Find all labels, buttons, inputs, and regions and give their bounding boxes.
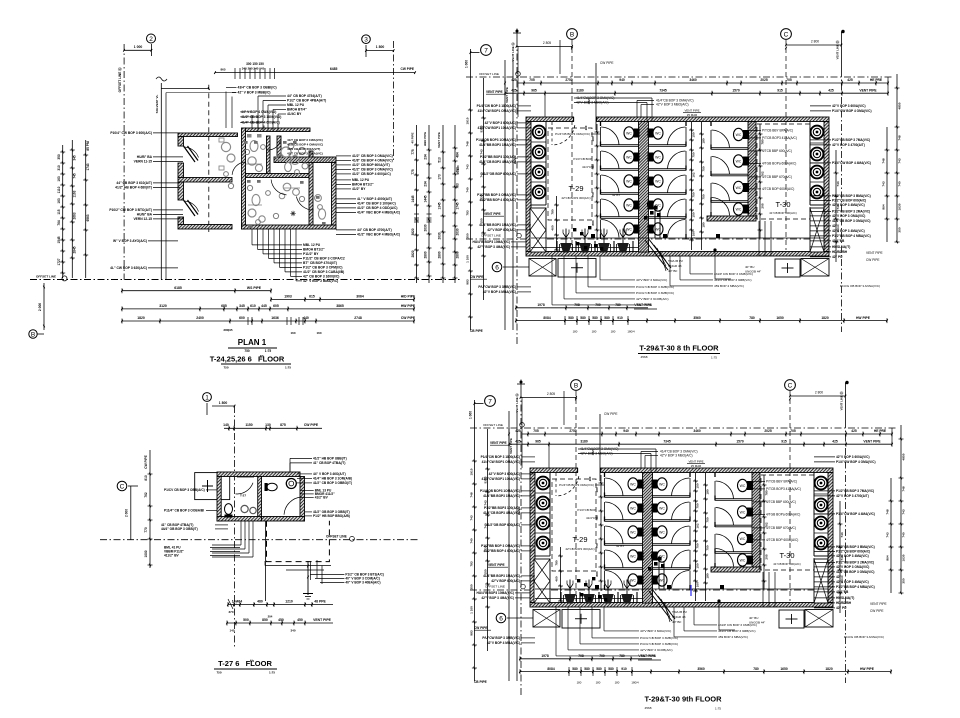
svg-text:C: C	[788, 382, 793, 389]
svg-text:HD/B2/BH: HD/B2/BH	[836, 601, 852, 605]
svg-text:41/2" CB BOP 3 CABA(I/B): 41/2" CB BOP 3 CABA(I/B)	[303, 270, 344, 274]
corner box left plus	[562, 610, 600, 629]
svg-text:173: 173	[438, 174, 442, 180]
svg-text:810: 810	[144, 475, 148, 481]
svg-text:3820: 3820	[411, 228, 415, 235]
svg-text:2800: 2800	[424, 251, 428, 258]
svg-text:180: 180	[706, 489, 710, 494]
svg-text:41"CB BOP 600(A/C): 41"CB BOP 600(A/C)	[769, 211, 797, 215]
svg-text:42"V BOP 600(A/C): 42"V BOP 600(A/C)	[491, 579, 520, 583]
extra fixture clutter	[244, 149, 249, 154]
svg-text:480: 480	[257, 600, 263, 604]
svg-text:6: 6	[499, 615, 503, 622]
stall front stubs bank C	[714, 496, 716, 501]
corner box left plus	[558, 259, 596, 278]
wc left room	[225, 504, 233, 515]
offset line A vertical	[123, 44, 125, 280]
svg-text:204: 204	[268, 615, 273, 619]
wash basin 1 right	[815, 477, 828, 490]
svg-text:770: 770	[144, 527, 148, 533]
corridor dim line 2	[705, 473, 707, 601]
urinal flush valves	[565, 229, 567, 244]
svg-text:42"CB BOP2 300(A/C): 42"CB BOP2 300(A/C)	[565, 547, 594, 551]
svg-text:350: 350	[57, 154, 61, 160]
urinal back line	[531, 247, 638, 249]
svg-text:3560: 3560	[697, 667, 705, 671]
basin lower-middle	[248, 209, 256, 217]
svg-text:163: 163	[57, 198, 61, 204]
svg-text:615: 615	[309, 295, 315, 299]
svg-text:910: 910	[621, 667, 627, 671]
svg-text:705: 705	[790, 429, 796, 433]
svg-text:WC: WC	[740, 484, 746, 488]
basin counter lines left	[535, 492, 550, 494]
svg-text:WC: WC	[655, 131, 661, 135]
stall doors bank A right	[668, 127, 686, 145]
svg-text:HW PIPE: HW PIPE	[856, 316, 871, 320]
svg-text:41" CB BOP 4TBA(/T): 41" CB BOP 4TBA(/T)	[313, 461, 345, 465]
svg-text:750: 750	[244, 349, 250, 353]
outer wall top right	[597, 117, 829, 122]
cw pipe riser top	[599, 414, 601, 481]
svg-text:WC: WC	[630, 482, 636, 486]
room T-30 dashed boundary	[761, 475, 814, 570]
svg-text:42"V BFP 3 3COB(A/C): 42"V BFP 3 3COB(A/C)	[636, 297, 669, 301]
svg-text:2 805: 2 805	[543, 41, 551, 45]
svg-text:T-27 6 FLOOR: T-27 6 FLOOR	[218, 659, 272, 668]
basin right room	[286, 479, 296, 489]
svg-text:7345: 7345	[659, 88, 667, 92]
svg-text:WC: WC	[655, 155, 661, 159]
corridor dim line 2	[701, 122, 703, 250]
svg-text:th: th	[260, 354, 264, 359]
svg-text:783: 783	[470, 561, 474, 566]
floor drain left	[595, 585, 599, 589]
svg-text:P10/4" CW BOP 3 600(A/C): P10/4" CW BOP 3 600(A/C)	[110, 131, 152, 135]
svg-text:1570: 1570	[732, 88, 740, 92]
svg-text:P1/4"CB BOP3 OMA(V/C): P1/4"CB BOP3 OMA(V/C)	[555, 132, 590, 136]
offset line A vertical	[520, 391, 522, 696]
bottom dim row 1b	[271, 298, 414, 300]
svg-text:HBR PIPE: HBR PIPE	[423, 132, 427, 146]
grid bubble B	[571, 380, 582, 391]
svg-text:700: 700	[595, 303, 601, 307]
room T-29 dashed boundary	[552, 479, 596, 571]
svg-text:WC: WC	[655, 179, 661, 183]
svg-text:205: 205	[761, 203, 765, 208]
svg-text:580: 580	[572, 667, 578, 671]
svg-text:983: 983	[466, 279, 470, 284]
svg-text:708: 708	[578, 654, 584, 658]
svg-text:370: 370	[228, 610, 233, 614]
svg-text:205: 205	[765, 554, 769, 559]
svg-text:6963: 6963	[86, 214, 90, 221]
grid C dim 2800	[790, 395, 845, 397]
svg-text:P1/2"BB BOP3 100(A/C): P1/2"BB BOP3 100(A/C)	[484, 506, 520, 510]
svg-text:HW PIPE: HW PIPE	[401, 304, 416, 308]
svg-text:WS PIPE: WS PIPE	[247, 286, 262, 290]
svg-text:25 MAR: 25 MAR	[691, 464, 701, 468]
corner box left xbrace	[533, 610, 560, 628]
door arc right room	[296, 197, 313, 211]
basin counter lines right	[814, 493, 828, 495]
svg-text:CW PIPE: CW PIPE	[604, 412, 617, 416]
svg-text:750: 750	[595, 543, 599, 548]
svg-text:WC: WC	[736, 133, 742, 137]
left vertical dim line 2	[71, 140, 73, 278]
corridor dim line 1	[691, 122, 693, 250]
wash basin 1 left	[537, 477, 550, 490]
wall middle T-27	[258, 477, 262, 522]
svg-text:459 BOP 4 MBA(V/C): 459 BOP 4 MBA(V/C)	[714, 284, 744, 288]
svg-text:3: 3	[364, 37, 368, 44]
svg-text:940: 940	[623, 429, 629, 433]
svg-text:2 800: 2 800	[811, 39, 819, 43]
svg-text:1 060: 1 060	[469, 411, 473, 419]
svg-text:2030: 2030	[438, 232, 442, 239]
grid bubble 7	[481, 45, 492, 56]
basin alcove inner wall right	[813, 473, 815, 557]
svg-text:910: 910	[617, 316, 623, 320]
svg-text:CW PIPE: CW PIPE	[401, 316, 416, 320]
pipe drop ticks	[307, 565, 309, 568]
bottom dim row 1	[516, 307, 648, 309]
right vertical dim 2	[890, 478, 892, 593]
basin alcove inner wall left	[545, 122, 547, 206]
stall front stubs bank A left	[604, 493, 606, 498]
svg-text:P1/4"CB BOP: P1/4"CB BOP	[573, 157, 592, 161]
wash basin 4 left	[533, 186, 546, 199]
grid 1 stem	[206, 403, 208, 415]
svg-text:8084: 8084	[547, 667, 555, 671]
svg-text:WC: WC	[736, 159, 742, 163]
svg-text:40" BU: 40" BU	[745, 265, 754, 269]
floor drain circles left room	[241, 505, 248, 512]
svg-text:P1/2"CB BOP 600(A/C): P1/2"CB BOP 600(A/C)	[832, 199, 866, 203]
svg-text:1 100: 1 100	[466, 255, 470, 263]
svg-text:484: 484	[456, 152, 460, 158]
svg-text:3560: 3560	[693, 316, 701, 320]
svg-text:4/TCB BBP 600(A/C): 4/TCB BBP 600(A/C)	[762, 149, 792, 153]
svg-text:WC: WC	[630, 530, 636, 534]
svg-text:1820: 1820	[825, 667, 833, 671]
svg-text:3064: 3064	[356, 295, 364, 299]
svg-text:705: 705	[529, 78, 535, 82]
wall right T-27	[300, 477, 305, 522]
svg-text:750: 750	[702, 194, 706, 199]
grid 7 leader	[474, 403, 483, 405]
svg-text:1445: 1445	[424, 195, 428, 202]
svg-text:OFFSET LINE: OFFSET LINE	[36, 275, 56, 279]
svg-text:762: 762	[144, 492, 148, 498]
svg-text:T-30: T-30	[775, 200, 790, 209]
wash basin 3 right	[815, 517, 828, 530]
room T-29 dashed boundary	[548, 128, 592, 220]
outer wall right	[824, 122, 829, 252]
svg-text:P11/2" CB BOP 3 COPA/C2: P11/2" CB BOP 3 COPA/C2	[303, 257, 345, 261]
svg-text:44" V BOP 3 46O(A/T): 44" V BOP 3 46O(A/T)	[313, 472, 346, 476]
svg-text:P1/2"CB BOP 600(A/C): P1/2"CB BOP 600(A/C)	[836, 550, 870, 554]
svg-text:4/TGB BOPa 600A(A/C): 4/TGB BOPa 600A(A/C)	[762, 162, 796, 166]
svg-text:P1/2"CB BOP 3 7MA(V/C): P1/2"CB BOP 3 7MA(V/C)	[836, 489, 874, 493]
svg-text:42"V BOP 3 4700(A/T): 42"V BOP 3 4700(A/T)	[836, 494, 869, 498]
svg-text:605: 605	[273, 304, 279, 308]
svg-text:41/2" CB BOP 4 600(A/C): 41/2" CB BOP 4 600(A/C)	[352, 172, 391, 176]
svg-text:6485: 6485	[330, 67, 338, 71]
wall left T-27	[217, 477, 221, 522]
offset line D	[100, 539, 420, 541]
svg-text:130: 130	[265, 423, 271, 427]
svg-text:425: 425	[511, 78, 517, 82]
dashed pipe drop	[208, 85, 210, 232]
svg-text:42"V BOP 3 600(A/C): 42"V BOP 3 600(A/C)	[489, 472, 520, 476]
svg-text:41/4"CB BOP3 4MA(V/C): 41/4"CB BOP3 4MA(V/C)	[479, 160, 516, 164]
svg-text:864: 864	[882, 204, 886, 209]
svg-text:500: 500	[243, 618, 249, 622]
svg-text:42"V BOP 3 MBO(A/C): 42"V BOP 3 MBO(A/C)	[656, 103, 689, 107]
shaft x-brace left	[530, 208, 546, 252]
wall left segment lower	[178, 217, 184, 225]
grid bubble 1	[203, 393, 212, 402]
svg-text:WC: WC	[736, 207, 742, 211]
wall left segment upper	[178, 163, 184, 178]
valve cluster at chase bottom	[647, 203, 651, 207]
right small cross ticks	[414, 213, 419, 215]
svg-text:425: 425	[832, 439, 838, 443]
pipe diagonal run	[645, 240, 668, 270]
svg-text:P/TCB BOP3 41AA(A/C): P/TCB BOP3 41AA(A/C)	[762, 136, 797, 140]
svg-text:42"V BOP 3 600(A/C): 42"V BOP 3 600(A/C)	[485, 121, 516, 125]
svg-text:4/TCB BOP 600A(A/C): 4/TCB BOP 600A(A/C)	[766, 538, 798, 542]
door arc upper-left	[184, 147, 199, 158]
door leaf lower-left	[184, 200, 196, 216]
svg-text:4/TCB BBP 600(A/C): 4/TCB BBP 600(A/C)	[766, 500, 796, 504]
svg-text:P1/4"CW BOP 4 OMA(V/C): P1/4"CW BOP 4 OMA(V/C)	[836, 460, 876, 464]
svg-text:4/TCB BBP 670(A/C): 4/TCB BBP 670(A/C)	[762, 175, 792, 179]
wall left mid bar	[178, 178, 232, 183]
svg-text:2800: 2800	[438, 251, 442, 258]
wc fixtures bank A left	[628, 478, 644, 490]
svg-text:4568: 4568	[641, 355, 648, 359]
svg-text:180: 180	[591, 136, 595, 141]
right vertical dim A	[416, 125, 418, 283]
left vertical dim line 3	[85, 140, 87, 278]
right vertical dim 3	[835, 150, 837, 262]
svg-text:2750: 2750	[569, 429, 577, 433]
wc right room	[318, 209, 325, 219]
wall top of middle room	[246, 128, 311, 132]
stall doors bank C	[716, 481, 734, 499]
shaft x-brace left	[534, 559, 550, 603]
grid bubble C	[117, 481, 127, 491]
top dim row 1	[522, 433, 892, 435]
svg-text:740: 740	[470, 538, 474, 543]
svg-text:41/2" CB BOP 3 OBBO(/T): 41/2" CB BOP 3 OBBO(/T)	[313, 481, 352, 485]
fixture cluster center	[283, 183, 291, 191]
door arc upper middle	[267, 141, 280, 150]
vent pipe risers left	[508, 411, 510, 681]
svg-text:HU/4"B BOP3 10MA(V/C): HU/4"B BOP3 10MA(V/C)	[477, 591, 514, 595]
svg-text:P/U"CW BOP 3 3MB(V/C): P/U"CW BOP 3 3MB(V/C)	[478, 285, 516, 289]
svg-text:7345: 7345	[663, 439, 671, 443]
svg-text:T-29&T-30 8 th FLOOR: T-29&T-30 8 th FLOOR	[639, 344, 719, 353]
svg-text:P/U/G"CB BOP 3 3MB(V/C): P/U/G"CB BOP 3 3MB(V/C)	[636, 291, 674, 295]
grid bubble C	[781, 29, 792, 40]
svg-text:425: 425	[851, 429, 857, 433]
svg-text:HU/B" BA: HU/B" BA	[137, 155, 153, 159]
svg-text:783: 783	[456, 183, 460, 189]
wall middle horizontal	[246, 174, 313, 178]
svg-text:750: 750	[223, 366, 228, 370]
svg-text:VENT LINE Ⓐ: VENT LINE Ⓐ	[510, 42, 515, 61]
cw pipe riser top	[595, 63, 597, 130]
grid B dashed line	[571, 40, 573, 250]
svg-text:CW PIPE: CW PIPE	[474, 626, 487, 630]
left vertical dim 2	[487, 429, 489, 651]
svg-text:2 000: 2 000	[38, 303, 42, 311]
svg-text:41/4"CW: 41/4"CW	[582, 165, 594, 169]
outer wall right	[828, 473, 833, 603]
svg-text:WC: WC	[659, 506, 665, 510]
svg-text:1727: 1727	[57, 258, 61, 265]
wash basin 2 left	[533, 146, 546, 159]
svg-text:42"V BOP 4 MBA(V/C): 42"V BOP 4 MBA(V/C)	[483, 290, 516, 294]
basin counter lines left	[531, 141, 546, 143]
svg-text:350: 350	[470, 584, 474, 589]
wash basin 3 right	[811, 166, 824, 179]
svg-text:P1/2" HB BOP BBO(A/B): P1/2" HB BOP BBO(A/B)	[313, 514, 350, 518]
svg-text:580: 580	[604, 316, 610, 320]
svg-text:VENT PIPE: VENT PIPE	[634, 303, 652, 307]
chase wall bank C	[748, 122, 756, 217]
svg-text:750: 750	[706, 545, 710, 550]
svg-text:875: 875	[280, 423, 286, 427]
svg-text:41/2"OB BOP 600(A/C): 41/2"OB BOP 600(A/C)	[482, 172, 516, 176]
svg-text:460: 460	[555, 576, 559, 581]
bottom dim row 2	[516, 320, 887, 322]
svg-text:WC: WC	[626, 155, 632, 159]
svg-text:BMOH BT1/2": BMOH BT1/2"	[303, 248, 325, 252]
pipe riser drop mid	[654, 205, 656, 238]
svg-text:2025: 2025	[760, 78, 768, 82]
svg-text:41/2" CB BOP 3 OMA(V/C): 41/2" CB BOP 3 OMA(V/C)	[352, 168, 393, 172]
svg-text:8084: 8084	[543, 316, 551, 320]
outer wall left	[530, 473, 535, 603]
urinal fixtures	[560, 243, 573, 253]
svg-text:234: 234	[424, 154, 428, 160]
svg-text:42" PU: 42" PU	[836, 606, 847, 610]
svg-text:743: 743	[466, 164, 470, 169]
svg-text:2 805: 2 805	[547, 392, 555, 396]
left vertical dim 2	[483, 78, 485, 300]
svg-text:6185: 6185	[174, 286, 182, 290]
leader from solvent riser	[161, 88, 209, 90]
svg-text:HMSL 44(/T): HMSL 44(/T)	[836, 596, 854, 600]
svg-text:4/TCB BBP 670(A/C): 4/TCB BBP 670(A/C)	[766, 526, 796, 530]
floor drain right	[716, 234, 720, 238]
svg-text:HU/B" BA: HU/B" BA	[137, 213, 153, 217]
svg-text:743: 743	[484, 500, 488, 505]
svg-text:762: 762	[765, 522, 769, 527]
grid bubble B	[567, 29, 578, 40]
svg-text:PCU/G OB BOP 3 ANNA(V/C): PCU/G OB BOP 3 ANNA(V/C)	[840, 284, 880, 288]
svg-text:P1/2" CB BOP 3 CPM(I/C): P1/2" CB BOP 3 CPM(I/C)	[303, 266, 342, 270]
svg-text:41/B CB BOP 4 OMA(V/C): 41/B CB BOP 4 OMA(V/C)	[287, 143, 323, 147]
svg-text:1743: 1743	[86, 163, 90, 170]
wall bottom left T-27	[217, 517, 262, 522]
wc fixtures bank A right	[648, 127, 664, 139]
svg-text:580: 580	[584, 667, 590, 671]
wash basin 2 left	[537, 497, 550, 510]
svg-text:460: 460	[551, 225, 555, 230]
svg-text:41/4" VBC BOP 4 MBO(A/C): 41/4" VBC BOP 4 MBO(A/C)	[357, 211, 400, 215]
offset line top	[470, 427, 897, 429]
corridor bottom line	[531, 237, 824, 239]
svg-text:580: 580	[568, 316, 574, 320]
svg-text:41/2"BB BOP 4 600(A/C): 41/2"BB BOP 4 600(A/C)	[479, 198, 516, 202]
wall bottom right T-27	[262, 517, 305, 522]
svg-text:CW PIPE: CW PIPE	[401, 67, 414, 71]
grid bubble 6	[492, 262, 502, 272]
grid B dim 2800	[517, 45, 573, 47]
svg-text:580: 580	[592, 316, 598, 320]
svg-text:VENT PIPE: VENT PIPE	[859, 88, 877, 92]
svg-text:42"CB BOP2 300(A/C): 42"CB BOP2 300(A/C)	[561, 196, 590, 200]
svg-text:965: 965	[535, 439, 541, 443]
svg-text:UNGOB 44": UNGOB 44"	[749, 621, 765, 625]
svg-text:P1/4"CW BOP 3 1800(A/C): P1/4"CW BOP 3 1800(A/C)	[477, 104, 516, 108]
svg-text:7: 7	[488, 398, 492, 405]
outer wall left	[526, 122, 531, 252]
svg-text:1630: 1630	[898, 203, 902, 210]
svg-text:1:75: 1:75	[265, 349, 272, 353]
grid 1 dashdot line	[234, 406, 236, 648]
svg-text:115: 115	[57, 209, 61, 214]
svg-text:1 800: 1 800	[219, 401, 228, 405]
svg-text:5363: 5363	[484, 476, 488, 483]
bottom dim row 2	[520, 671, 891, 673]
shaft x-brace right	[810, 208, 824, 252]
svg-text:40" BF: 40" BF	[672, 620, 681, 624]
plumbing bar wall	[274, 157, 336, 163]
svg-text:C: C	[784, 31, 789, 38]
bank B small dims	[763, 475, 765, 589]
svg-text:41/2" BY: 41/2" BY	[352, 187, 366, 191]
corridor dim line 1	[695, 473, 697, 601]
marker circle on drop line	[717, 599, 720, 602]
wall bottom	[242, 225, 337, 229]
svg-text:743: 743	[470, 515, 474, 520]
left vertical dim 1	[469, 49, 471, 330]
svg-text:740: 740	[480, 172, 484, 177]
svg-text:85 PM: 85 PM	[86, 141, 90, 151]
svg-text:1630: 1630	[902, 554, 906, 561]
svg-text:B: B	[574, 382, 578, 389]
svg-text:350: 350	[898, 227, 902, 232]
stall doors bank A left	[605, 478, 623, 496]
svg-text:41/4" HB BOP 3 1OM(A/B): 41/4" HB BOP 3 1OM(A/B)	[313, 477, 352, 481]
basin cluster mid	[248, 157, 256, 165]
svg-text:P11/4" CB BOP 3 OOBA/BI: P11/4" CB BOP 3 OOBA/BI	[164, 509, 204, 513]
top dim row 1	[518, 82, 888, 84]
svg-text:748: 748	[466, 141, 470, 146]
pipe elbow lines	[265, 565, 331, 567]
basin counter lines right	[810, 142, 824, 144]
svg-text:VENT LINE Ⓓ: VENT LINE Ⓓ	[835, 40, 840, 59]
grid B dim 2800	[521, 396, 577, 398]
wash basin 4 right	[811, 186, 824, 199]
svg-text:CW PIPE: CW PIPE	[866, 258, 879, 262]
